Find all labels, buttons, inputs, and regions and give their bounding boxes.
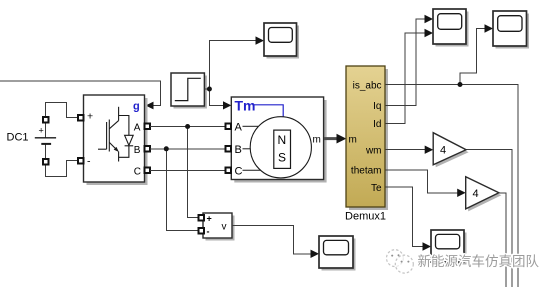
wire A to voltmeter plus [188, 127, 200, 218]
wire DC1 minus to bridge minus [46, 161, 79, 177]
svg-text:wm: wm [365, 145, 382, 156]
svg-text:Te: Te [371, 183, 382, 194]
wire phase B bridge to motor [150, 148, 226, 150]
gain2 triangle [466, 177, 499, 209]
arrowhead scope2 [256, 36, 265, 44]
motor lead C [243, 169, 263, 171]
step icon [175, 78, 201, 100]
scope4 body [319, 236, 353, 268]
gain2 shadow [468, 179, 501, 211]
motor lead A [243, 125, 259, 127]
svg-text:g: g [133, 101, 140, 113]
bridge IGBT icon [98, 107, 133, 162]
step block [171, 73, 204, 106]
svg-text:m: m [313, 135, 321, 146]
svg-text:Id: Id [373, 119, 381, 130]
scope1 screen [438, 14, 462, 30]
arrowhead into bridge g port [146, 102, 154, 110]
wire step to scope2 [209, 41, 255, 89]
arrowhead scope1 upper [425, 15, 434, 23]
gain1 triangle [433, 133, 466, 165]
svg-text:+: + [39, 126, 44, 136]
junction dot on A [185, 124, 190, 129]
svg-text:4: 4 [473, 188, 479, 200]
motor circle [250, 117, 311, 178]
motor PMSM body [231, 97, 323, 180]
wire DC1 plus to bridge plus [46, 102, 79, 119]
scope3 screen [436, 234, 460, 248]
scope4 shadow [322, 239, 356, 271]
svg-text:Tm: Tm [235, 98, 256, 114]
arrowhead scope4 [311, 250, 320, 258]
wire branch to scope5 [460, 29, 485, 85]
svg-text:Iq: Iq [373, 101, 381, 112]
wire wm to gain1 [386, 149, 426, 151]
svg-text:+: + [207, 214, 212, 224]
scope4 screen [324, 240, 349, 254]
scope2 screen [269, 28, 293, 43]
arrowhead scope1 lower [425, 29, 434, 37]
demux1 body [346, 66, 385, 207]
bridge port square B [145, 146, 150, 151]
svg-text:S: S [278, 151, 286, 165]
demux1 shadow [349, 69, 388, 210]
junction dot is_abc [458, 82, 463, 87]
motor PMSM shadow [234, 100, 326, 183]
svg-text:is_abc: is_abc [353, 80, 382, 91]
arrowhead scope5 [485, 24, 494, 32]
step block shadow [174, 76, 207, 109]
wire g feedback from left edge [0, 81, 161, 106]
wire gain2 output [499, 193, 506, 287]
battery DC1 [35, 121, 56, 161]
scope1 body [433, 9, 466, 44]
svg-text:C: C [134, 167, 141, 178]
wire Id to scope1 lower [386, 33, 426, 123]
bridge IGBT emitter arrow [114, 147, 119, 152]
motor port square A [226, 124, 231, 129]
gain1 shadow [436, 135, 469, 167]
bridge port square plus [78, 115, 83, 120]
scope1 shadow [436, 12, 469, 47]
svg-text:+: + [87, 111, 93, 123]
wire Te to scope3 [386, 187, 424, 247]
scope3 shadow [434, 233, 467, 265]
svg-text:-: - [207, 227, 210, 237]
watermark logo dots [391, 254, 409, 262]
bridge diode D [125, 135, 134, 145]
port square DC1 top [43, 117, 48, 122]
universal bridge U1 shadow [87, 98, 148, 185]
svg-text:C: C [235, 165, 243, 177]
svg-text:新能源汽车仿真团队: 新能源汽车仿真团队 [418, 253, 540, 269]
voltmeter VM body [203, 213, 232, 238]
svg-text:4: 4 [440, 145, 446, 157]
bridge port square C [145, 168, 150, 173]
wire phase A bridge to motor [150, 126, 226, 128]
arrowhead gain1 [425, 146, 434, 154]
port square DC1 bottom [43, 159, 48, 164]
svg-text:thetam: thetam [351, 166, 382, 177]
voltmeter port square minus [199, 228, 204, 233]
junction dot step output [207, 87, 212, 92]
junction dot on B [164, 146, 169, 151]
universal bridge U1 body [84, 95, 145, 182]
wire phase C bridge to motor [150, 170, 226, 172]
scope2 body [264, 23, 297, 56]
bridge port square minus [78, 158, 83, 163]
arrowhead scope3 [423, 242, 432, 250]
wire gain1 output [466, 150, 512, 287]
arrowhead demux input [337, 134, 347, 144]
wire thetam to gain2 [386, 170, 458, 193]
wire step output [205, 88, 210, 90]
arrowhead motor Tm [223, 101, 231, 109]
watermark logo circle right [395, 255, 413, 273]
wire m bus motor to demux [324, 137, 338, 140]
voltmeter port square plus [199, 215, 204, 220]
scope5 shadow [496, 14, 530, 49]
motor port square C [226, 168, 231, 173]
svg-text:B: B [134, 145, 141, 156]
wire step to motor Tm [209, 89, 223, 105]
watermark logo circle left [387, 250, 404, 267]
voltmeter VM shadow [206, 216, 235, 241]
wire voltmeter to scope4 [232, 226, 311, 254]
svg-text:DC1: DC1 [7, 132, 29, 144]
scope5 body [493, 11, 527, 46]
svg-text:B: B [235, 144, 242, 156]
wire is_abc long to bottom right [386, 85, 519, 287]
motor Tm blue wire [254, 105, 283, 121]
svg-text:m: m [349, 135, 357, 146]
scope2 shadow [267, 26, 300, 59]
svg-text:-: - [87, 156, 91, 168]
scope5 screen [498, 16, 522, 32]
svg-text:A: A [134, 123, 141, 134]
svg-text:v: v [222, 222, 227, 233]
motor port square B [226, 146, 231, 151]
svg-text:N: N [278, 133, 287, 147]
scope3 body [431, 230, 464, 262]
bridge port square A [145, 124, 150, 129]
arrowhead gain2 [457, 189, 466, 197]
motor lead B [243, 148, 252, 150]
wire B to voltmeter minus [166, 149, 199, 231]
wire Iq to scope1 upper [386, 19, 426, 105]
svg-text:Demux1: Demux1 [345, 211, 386, 223]
motor magnet rect [274, 130, 291, 168]
svg-text:A: A [235, 121, 243, 133]
